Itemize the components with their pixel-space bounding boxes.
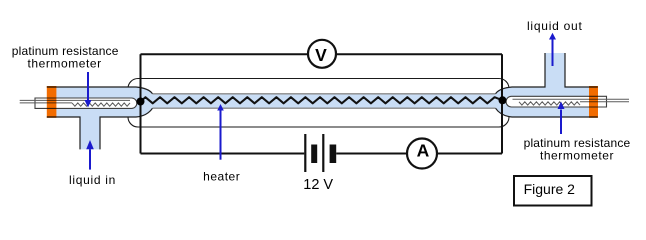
svg-text:liquid out: liquid out [527,19,583,33]
svg-text:liquid in: liquid in [69,173,116,187]
svg-text:heater: heater [203,169,240,183]
svg-text:thermometer: thermometer [540,148,614,162]
svg-text:A: A [417,141,430,161]
svg-text:thermometer: thermometer [28,57,102,71]
svg-text:V: V [315,45,327,65]
svg-text:Figure 2: Figure 2 [524,181,576,197]
svg-text:12 V: 12 V [303,177,333,193]
